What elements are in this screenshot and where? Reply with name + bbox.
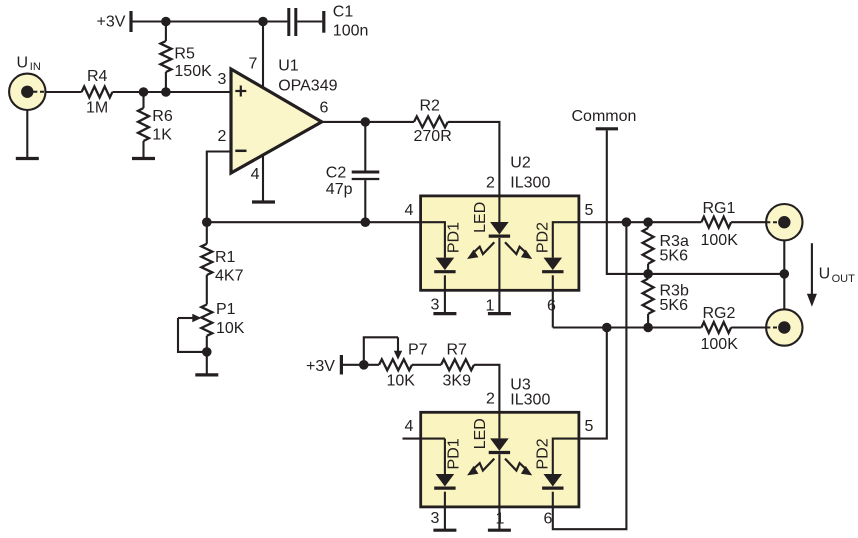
op-amp U1	[231, 57, 338, 173]
wire U1 output	[322, 121, 414, 123]
node P7 junction	[359, 360, 369, 370]
svg-text:4K7: 4K7	[215, 268, 244, 285]
svg-text:LED: LED	[472, 418, 489, 449]
svg-text:1M: 1M	[86, 100, 108, 117]
svg-text:7: 7	[249, 56, 258, 73]
svg-text:6: 6	[547, 298, 556, 315]
U3 labels	[510, 377, 550, 409]
U3 pin 4 label	[405, 418, 414, 435]
wire U2 pin6 net	[553, 326, 702, 328]
resistor RG1	[701, 200, 739, 249]
svg-text:LED: LED	[472, 202, 489, 233]
svg-text:150K: 150K	[174, 63, 212, 80]
wire R7 to U3 pin2	[474, 365, 499, 413]
svg-text:OPA349: OPA349	[278, 77, 337, 94]
U3 pin 5 label	[585, 418, 594, 435]
power +3V (top)	[97, 11, 132, 32]
U2 pin 6 label	[547, 298, 556, 315]
node Common label	[572, 108, 637, 125]
svg-text:IL300: IL300	[510, 392, 550, 409]
node output junction	[361, 117, 371, 127]
svg-text:Common: Common	[572, 108, 637, 125]
wire U1 pin7	[262, 22, 264, 89]
svg-text:R5: R5	[174, 46, 195, 63]
svg-text:R4: R4	[87, 68, 108, 85]
wire P1 to ground	[206, 336, 208, 375]
U3 photodiode PD1	[421, 438, 463, 530]
wire RG1 to connector	[731, 221, 766, 223]
svg-text:R1: R1	[215, 249, 236, 266]
svg-text:C1: C1	[333, 4, 354, 21]
U2 pin 1 label	[486, 298, 495, 315]
svg-text:3: 3	[218, 71, 227, 88]
power +3V (bottom)	[306, 355, 341, 375]
wire U3 pin5 to lower net	[579, 328, 607, 439]
svg-text:2: 2	[486, 391, 495, 408]
svg-text:PD2: PD2	[534, 438, 551, 469]
resistor R7	[441, 342, 474, 390]
svg-text:1: 1	[486, 298, 495, 315]
svg-text:10K: 10K	[387, 373, 416, 390]
node rail junctions	[161, 17, 268, 27]
U2 pin 2 label	[486, 175, 495, 192]
U3 pin 2 label	[486, 391, 495, 408]
svg-text:100K: 100K	[701, 232, 739, 249]
node U_IN label	[17, 55, 41, 74]
svg-text:IN: IN	[30, 61, 41, 73]
ground (U2 pin3)	[433, 312, 456, 315]
svg-text:6: 6	[320, 99, 329, 116]
wire RG2 to connector	[731, 326, 766, 328]
pin 3 label	[218, 71, 227, 88]
svg-text:OUT: OUT	[832, 273, 856, 285]
ground (input)	[16, 157, 39, 160]
ground (U3 pin3)	[433, 529, 456, 532]
resistor R4	[82, 68, 113, 117]
wire +3V rail	[133, 20, 288, 22]
connector U_IN	[9, 74, 45, 110]
svg-text:270R: 270R	[414, 128, 452, 145]
node input junction	[139, 87, 171, 97]
wire input connector ground stub	[26, 110, 28, 159]
node pin5 junctions	[622, 217, 653, 227]
svg-text:1K: 1K	[152, 127, 172, 144]
svg-text:U1: U1	[278, 57, 299, 74]
wire R1 to P1	[206, 275, 208, 305]
svg-text:2: 2	[486, 175, 495, 192]
svg-text:6: 6	[544, 511, 553, 528]
svg-text:PD2: PD2	[534, 222, 551, 253]
wire input to R4	[46, 91, 82, 93]
svg-text:PD1: PD1	[445, 438, 462, 469]
ground (U3 pin1)	[488, 529, 511, 532]
wire U2 pin5 net	[579, 221, 702, 223]
U3 LED	[472, 412, 510, 530]
wire U1 pin2 (inverting input)	[207, 152, 231, 223]
svg-text:100n: 100n	[333, 23, 369, 40]
node mid junctions	[643, 269, 789, 279]
wire +3V to P7	[343, 364, 379, 366]
svg-text:R2: R2	[420, 98, 441, 115]
svg-text:47p: 47p	[326, 181, 353, 198]
connector U_OUT top	[766, 204, 802, 240]
svg-text:U: U	[17, 55, 29, 72]
node U_OUT arrow	[807, 243, 855, 307]
svg-text:4: 4	[251, 166, 260, 183]
optocoupler U2 box	[421, 196, 579, 290]
U2 photodiode PD2	[534, 222, 579, 328]
svg-text:RG2: RG2	[703, 305, 736, 322]
pin 2 label	[218, 128, 227, 145]
svg-text:5: 5	[585, 202, 594, 219]
wire output loop	[783, 241, 785, 310]
svg-text:2: 2	[218, 128, 227, 145]
U3 pin 3 label	[431, 510, 440, 527]
svg-text:U: U	[819, 266, 831, 283]
U2 pin 5 label	[585, 202, 594, 219]
ground (P1)	[195, 373, 218, 376]
svg-text:R6: R6	[152, 108, 173, 125]
svg-text:+3V: +3V	[97, 14, 126, 31]
U2 pin 3 label	[431, 297, 440, 314]
svg-text:10K: 10K	[216, 320, 245, 337]
U2 labels	[510, 155, 550, 192]
resistor R1	[201, 222, 243, 284]
wire P7 to R7	[412, 364, 441, 366]
potentiometer P1	[178, 301, 245, 352]
U2 LED	[472, 196, 510, 314]
svg-text:P7: P7	[408, 342, 428, 359]
svg-text:4: 4	[405, 418, 414, 435]
U3 photodiode PD2	[534, 438, 579, 488]
svg-text:R7: R7	[447, 342, 468, 359]
U3 light arrows	[467, 459, 532, 476]
wire R4 to opamp	[112, 91, 231, 93]
ground (U1 pin4)	[252, 200, 275, 203]
node P1 wiper junction	[202, 347, 212, 357]
resistor R2	[414, 98, 452, 146]
U3 pin 6 label	[544, 511, 553, 528]
svg-text:5: 5	[585, 418, 594, 435]
svg-text:P1: P1	[216, 301, 236, 318]
svg-text:IL300: IL300	[510, 175, 550, 192]
wire Common	[607, 130, 648, 274]
resistor R3a	[643, 222, 689, 274]
resistor R5	[160, 22, 212, 93]
svg-text:U2: U2	[510, 155, 531, 172]
wire feedback	[207, 221, 421, 223]
optocoupler U3 box	[421, 412, 579, 507]
svg-text:PD1: PD1	[445, 222, 462, 253]
U2 light arrows	[467, 242, 532, 259]
pin 6 label	[320, 99, 329, 116]
wire mid to output loop	[648, 273, 784, 275]
svg-text:RG1: RG1	[703, 200, 736, 217]
capacitor C1	[289, 4, 369, 40]
svg-text:+3V: +3V	[306, 358, 335, 375]
resistor R6	[138, 92, 173, 159]
svg-text:4: 4	[405, 202, 414, 219]
U2 photodiode PD1	[421, 222, 463, 314]
potentiometer P7	[364, 337, 428, 389]
svg-text:3: 3	[431, 297, 440, 314]
U3 pin 1 label	[496, 511, 505, 528]
U2 pin 4 label	[405, 202, 414, 219]
wire U1 pin4	[262, 154, 264, 202]
wire R2 to U2 pin2	[448, 122, 500, 196]
wire U3 pin6 to pin5 net	[553, 222, 627, 529]
node feedback junctions	[202, 217, 370, 227]
svg-text:C2: C2	[326, 165, 347, 182]
wire U3 pin4 stub	[403, 438, 421, 440]
pin 7 label	[249, 56, 258, 73]
resistor RG2	[701, 305, 739, 353]
power Common terminal	[596, 127, 618, 130]
svg-text:5K6: 5K6	[660, 248, 689, 265]
capacitor C2	[326, 122, 380, 222]
ground (R6)	[132, 157, 155, 160]
svg-text:3: 3	[431, 510, 440, 527]
pin 4 label	[251, 166, 260, 183]
node pin6 junctions	[602, 323, 653, 333]
ground (U2 pin1)	[488, 312, 511, 315]
connector U_OUT bottom	[766, 309, 802, 345]
svg-text:3K9: 3K9	[443, 373, 472, 390]
svg-text:100K: 100K	[701, 336, 739, 353]
svg-text:5K6: 5K6	[660, 297, 689, 314]
resistor R3b	[643, 274, 689, 328]
